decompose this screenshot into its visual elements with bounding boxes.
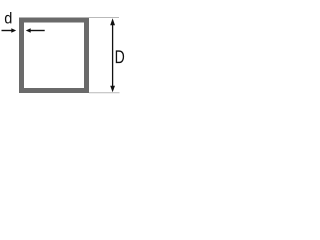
arrowhead D up [110,18,115,25]
arrowhead D down [110,86,115,93]
arrow d left-side pointing right: head [11,28,16,32]
extension line bottom [89,92,120,94]
extension line top [89,17,119,19]
label D [116,50,124,63]
arrow d inner pointing left: head [26,28,31,32]
label d [5,12,11,24]
arrow d inner pointing left: shaft [30,30,45,32]
square tube hollow interior [24,23,84,89]
dimension line D shaft [112,22,114,88]
arrow d left-side pointing right: shaft [2,30,13,32]
square tube outer wall [19,18,89,94]
